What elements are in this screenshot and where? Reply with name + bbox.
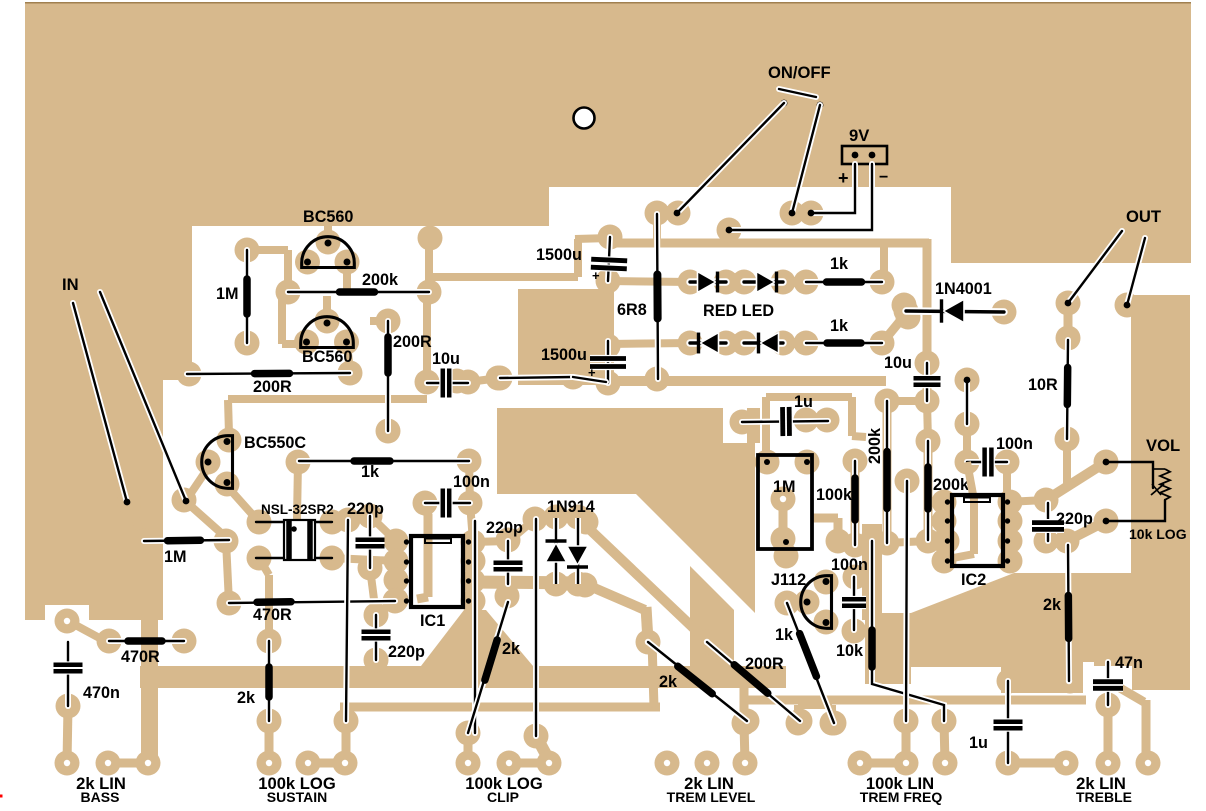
resistor 2k clip diagonal [468, 602, 508, 733]
capacitor 1500u lower [605, 341, 611, 383]
resistor 200R vertical [385, 321, 391, 431]
resistor 1M vertical [244, 250, 250, 343]
trace 47n pad diag right [1120, 688, 1144, 702]
svg-text:BC550C: BC550C [244, 434, 306, 452]
trace sustain pot links [265, 721, 274, 763]
svg-text:TREBLE: TREBLE [1076, 789, 1132, 805]
diode LED row2 a [690, 339, 726, 346]
svg-text:1u: 1u [969, 734, 988, 752]
VOL wire dots [1103, 459, 1110, 466]
trace 1500u1 to diode row1 [608, 281, 690, 282]
trace ic2 pin1 pour link [1007, 500, 1046, 502]
svg-text:1500u: 1500u [541, 346, 587, 364]
svg-text:2k: 2k [237, 689, 256, 707]
trace stub to 1k row1 pad [880, 245, 888, 278]
IC2 notch [964, 498, 990, 503]
trace bc550c pads joins [228, 400, 229, 434]
wire 1n914 to clip pot right [533, 519, 539, 736]
trace bass pot link [108, 759, 148, 768]
trace 200k tops link [887, 397, 927, 405]
svg-text:200R: 200R [253, 378, 292, 396]
transistor J112 [801, 576, 832, 629]
switch ON/OFF contact dots [781, 100, 788, 107]
trace vol bottom diag [1067, 521, 1106, 541]
IC2 box [952, 495, 1003, 566]
resistor 100k [852, 461, 858, 545]
wire OUT lead 2 [1127, 238, 1145, 305]
svg-text:IC1: IC1 [420, 612, 445, 630]
svg-text:1k: 1k [830, 255, 849, 273]
potentiometer VOL symbol [1106, 462, 1153, 488]
red registration tick [0, 795, 3, 798]
svg-text:2k: 2k [659, 673, 678, 691]
optocoupler NSL-32SR2 box [284, 520, 315, 560]
resistor 10R [1067, 340, 1068, 439]
copper pour top-left extension [25, 187, 549, 226]
resistor 200k rotated [884, 401, 890, 543]
svg-text:470R: 470R [253, 606, 292, 624]
IC1 pin dots [404, 539, 409, 544]
svg-text:1M: 1M [164, 548, 187, 566]
copper pour top-right block [951, 187, 1191, 263]
svg-text:10R: 10R [1028, 376, 1058, 394]
trace 1k row2 to 1n4001 cluster [882, 315, 905, 343]
trace stripe B to trem 2k [585, 584, 645, 610]
svg-text:2k: 2k [502, 640, 521, 658]
trace bc560-2 right pad to 200R [347, 344, 350, 371]
capacitor 220p ic1 right [505, 541, 511, 584]
svg-text:NSL-32SR2: NSL-32SR2 [261, 502, 334, 517]
wire 200k to trem freq pot [906, 481, 907, 721]
capacitor 1500u upper [608, 237, 610, 281]
trace 1m right pad to 470R pad [226, 541, 229, 603]
svg-text:SUSTAIN: SUSTAIN [267, 789, 327, 805]
svg-text:BC560: BC560 [303, 208, 353, 226]
copper pour center island upper [518, 289, 614, 385]
optocoupler NSL-32SR2 leads [256, 521, 284, 523]
copper pour left column upper [25, 226, 192, 380]
svg-text:VOL: VOL [1146, 436, 1180, 455]
svg-text:BASS: BASS [81, 789, 120, 805]
wire 9V plus to pad [812, 164, 855, 213]
copper pour top band edge line [25, 2, 1191, 4]
IC1 box [411, 536, 463, 607]
wire ON/OFF to pad 2 [792, 105, 820, 213]
copper pour column above 10k [862, 524, 882, 620]
trace stripe B drop [740, 688, 749, 723]
svg-text:200k: 200k [866, 427, 884, 464]
trace right rail x927 vertical [923, 239, 932, 401]
copper pour white pocket around 47n plates [1087, 666, 1132, 706]
resistor 10k [872, 541, 944, 721]
svg-text:220p: 220p [1056, 510, 1093, 528]
svg-text:1M: 1M [216, 285, 239, 303]
wire long jumper y377 to 1500u2 pad [573, 377, 606, 382]
svg-text:1N914: 1N914 [547, 498, 595, 516]
svg-text:10k: 10k [836, 642, 864, 660]
resistor 6R8 [657, 214, 658, 379]
trace trem level 2k stub [652, 641, 654, 707]
optocoupler NSL-32SR2 bars [286, 520, 292, 560]
trace 1m top pad L to 200k pad [247, 246, 288, 254]
capacitor 220p right [1045, 503, 1051, 541]
copper pour left column lower feet [25, 605, 45, 620]
trace bottom rail y381 [604, 376, 886, 386]
resistor 200R horizontal [187, 373, 350, 374]
resistor 2k right column [1068, 545, 1069, 681]
trace 10R top pads [1064, 303, 1073, 338]
trace treble links [1008, 759, 1066, 768]
svg-text:ON/OFF: ON/OFF [768, 63, 831, 82]
capacitor 100n j112 [851, 577, 857, 630]
IC1 notch [425, 539, 451, 544]
svg-text:10k LOG: 10k LOG [1129, 526, 1187, 542]
resistor 1k row2 [806, 340, 882, 346]
trace diode row1 middle link [726, 277, 744, 287]
trimpot 1M dots [764, 459, 770, 465]
transistor BC560 upper [302, 237, 355, 268]
svg-text:+: + [592, 268, 600, 283]
copper pour filler below notch [723, 443, 755, 494]
trace bc560-2 top pad up [323, 296, 331, 320]
copper pour lower-right mass [911, 573, 1131, 693]
pad holes [64, 496, 1151, 766]
trace 470n bottom to pot [67, 706, 68, 763]
trace 1n914 pads links [536, 515, 556, 524]
diode LED row1 a [690, 278, 726, 285]
diode 1N914 up [553, 518, 559, 584]
copper pour wedge right of stripes [636, 494, 755, 613]
copper pour notch white channel [723, 408, 747, 443]
trace trimpot bottom stub [782, 542, 791, 556]
trace 1k right pad to 100n [469, 461, 470, 503]
trace top row y541 right [928, 537, 947, 545]
svg-text:J112: J112 [771, 571, 806, 589]
mounting hole [574, 108, 595, 129]
trace 220p top pad to ic1 [370, 516, 396, 541]
capacitor 220p below ic1 [373, 615, 379, 660]
trace behind 200k second [924, 441, 933, 540]
trace long y277 to 200k column [429, 273, 578, 281]
svg-text:200R: 200R [393, 333, 432, 351]
trace thick y582 ic1 to diodes [473, 582, 586, 583]
battery clip 9V outline [842, 146, 887, 164]
trace behind 100k [851, 461, 860, 545]
resistor 470R upper [229, 601, 395, 603]
wire jumper 10u to 1500u2 [500, 377, 573, 378]
svg-text:IC2: IC2 [961, 571, 986, 589]
trace 200R-h left pad join [189, 368, 192, 380]
IC2 pin dots [945, 499, 950, 504]
capacitor 1u bottom [1005, 681, 1011, 763]
trace run A y707 [340, 703, 660, 712]
resistor 470R lower [109, 638, 184, 644]
trace ic1 pad to 220p3 [376, 600, 396, 615]
optocoupler NSL-32SR2 dot [291, 526, 297, 532]
resistor 1k bc550 [299, 458, 469, 464]
trace pi around 1u cap [762, 397, 770, 462]
svg-text:220p: 220p [388, 643, 425, 661]
trace 100n2 right pad down [1003, 462, 1011, 502]
trace diode row2 middle link [726, 338, 744, 348]
diode 1N914 down [575, 518, 581, 584]
diode LED row2 b [744, 339, 783, 346]
svg-text:1N4001: 1N4001 [935, 280, 992, 298]
trace pad 427 column [423, 292, 431, 383]
copper pour left column lower [25, 380, 163, 605]
trace ic2 left pads column [940, 502, 948, 561]
copper pour wall left of J112 pocket [690, 566, 734, 676]
wire from pad cluster x967 [964, 380, 970, 424]
trimpot 1M box [758, 455, 812, 549]
resistor 1k trem diagonal [787, 603, 834, 723]
diode 1N4001 [906, 311, 1004, 312]
svg-text:6R8: 6R8 [617, 301, 647, 319]
trace bc560-2 left column [278, 287, 286, 344]
svg-text:TREM LEVEL: TREM LEVEL [667, 789, 756, 805]
wire IN lead 1 [73, 303, 127, 502]
svg-text:1k: 1k [361, 463, 380, 481]
trace stripe A to trem 200R [584, 524, 705, 639]
trace 10u1 right pads link [468, 378, 500, 382]
svg-text:1M: 1M [773, 478, 796, 496]
trace 220p nsl bottom to 220p3 [370, 568, 376, 615]
trace ic1 right pads column stubs [466, 537, 478, 545]
trace trem level links [744, 723, 745, 763]
resistor 200k horizontal [288, 289, 429, 295]
svg-text:100n: 100n [453, 473, 490, 491]
trace diode row2 right link [783, 338, 806, 348]
capacitor 100n ic1 [425, 500, 470, 506]
svg-text:1u: 1u [794, 393, 813, 411]
svg-text:TREM FREQ: TREM FREQ [860, 789, 943, 805]
transistor BC560 lower [301, 317, 354, 348]
svg-text:IN: IN [62, 275, 79, 294]
copper pour clip triangle island [421, 610, 533, 666]
trace 470n top pad diag [68, 621, 105, 641]
wire nsl to sustain pot [346, 520, 348, 721]
copper pour white pocket left of 47n [1083, 662, 1094, 688]
trace x927 to 200k top [927, 401, 928, 441]
trace 200R-v top to left [370, 317, 388, 325]
resistor 2k trem diagonal [648, 642, 747, 721]
trace vol top diag [1046, 462, 1106, 500]
copper pour bottom band [140, 666, 786, 688]
resistor 1M horizontal [144, 540, 229, 541]
capacitor 220p nsl [367, 516, 373, 568]
copper pour top band [25, 2, 1191, 187]
copper pour bass vertical strip [141, 607, 158, 767]
copper pour center island main [497, 408, 730, 494]
svg-text:9V: 9V [849, 126, 869, 145]
trace x967 pads column [963, 424, 971, 462]
wire 220p to clip pot left [472, 521, 478, 733]
resistor 200R trem diagonal [707, 642, 800, 721]
svg-text:1k: 1k [775, 626, 794, 644]
capacitor 10u left [427, 380, 468, 386]
transistor BC550C [202, 436, 233, 489]
wire 9V minus to pad [729, 164, 872, 230]
trace pad 535 to 220p top [509, 519, 535, 541]
capacitor 47n [1105, 662, 1111, 705]
trace 1500u2 to diode row2 [608, 343, 690, 344]
trace trem freq links [860, 759, 906, 768]
trace nsl right pad to 220p top [332, 517, 368, 522]
trace 220p right pads diag [1046, 536, 1067, 546]
svg-text:−: − [879, 169, 888, 186]
capacitor 10u right [924, 363, 930, 401]
trace 1m trimpot middle [779, 499, 788, 539]
trace through IC2 interior [967, 462, 974, 500]
trace nsl right pad to ic1 pads [332, 558, 396, 561]
trace ic1 left pads column [392, 541, 400, 600]
diode LED row1 b [744, 278, 783, 285]
svg-text:+: + [838, 168, 849, 188]
trace j112 pads [787, 603, 806, 605]
trace 1u2 top pads link [1009, 677, 1070, 686]
svg-text:100n: 100n [996, 435, 1033, 453]
svg-text:47n: 47n [1115, 654, 1143, 672]
svg-text:2k: 2k [1043, 596, 1062, 614]
trace diode row1 right link [783, 277, 806, 287]
capacitor 1u left [742, 421, 828, 422]
trace clip pot links [464, 733, 473, 763]
svg-text:200k: 200k [362, 271, 399, 289]
switch ON/OFF lever [779, 89, 816, 97]
trace bc560-1 top pad to pour [324, 222, 332, 237]
capacitor 470n [65, 642, 71, 706]
trace bc560-1 right pad down [343, 262, 351, 290]
trace 1500u1 top L [575, 238, 610, 239]
wire IN lead 2 [100, 292, 186, 501]
resistor 2k sustain [266, 641, 272, 721]
svg-text:OUT: OUT [1126, 207, 1161, 226]
trace 6r8 pads column [653, 213, 661, 240]
trace 1k left pad down to nsl [297, 462, 298, 519]
trace 1m-left pads [129, 502, 144, 541]
wire OUT lead 1 [1068, 231, 1122, 303]
trace 10R bottom pad to vol [1063, 439, 1071, 488]
battery 9V terminal dots [852, 152, 859, 159]
svg-text:470R: 470R [121, 648, 160, 666]
pads [55, 201, 1161, 776]
svg-text:220p: 220p [486, 519, 523, 537]
trace ic1 pin5 to 220p top [473, 541, 508, 542]
svg-text:200R: 200R [745, 655, 784, 673]
svg-text:CLIP: CLIP [487, 789, 519, 805]
trace 200k right pad up [425, 240, 433, 292]
svg-text:470n: 470n [83, 684, 120, 702]
trace top thick rail y243 [604, 239, 929, 248]
trace 100n right pad to ic1 pin [470, 503, 473, 541]
svg-text:10u: 10u [432, 350, 460, 368]
copper pour right column block [1131, 295, 1190, 690]
svg-text:220p: 220p [347, 500, 384, 518]
trace through IC1 interior [427, 509, 428, 516]
svg-text:RED LED: RED LED [703, 302, 774, 320]
trace run B y700 [748, 696, 1086, 705]
svg-text:1k: 1k [830, 317, 849, 335]
trace behind 200k rot [883, 401, 892, 543]
svg-text:1500u: 1500u [536, 246, 582, 264]
capacitor 100n ic2 [967, 459, 1007, 465]
resistor 1k row1 [806, 279, 882, 285]
svg-text:100n: 100n [831, 556, 868, 574]
svg-text:100k: 100k [816, 486, 853, 504]
trace trimpot L [812, 514, 838, 523]
trace nsl bottom left pad down [259, 558, 269, 575]
trace 10u2 vertical [923, 363, 931, 401]
svg-text:BC560: BC560 [302, 348, 352, 366]
wire ON/OFF to pad 1 [677, 103, 784, 213]
svg-text:10u: 10u [884, 354, 912, 372]
resistor 200k second [925, 441, 931, 540]
svg-text:200k: 200k [933, 476, 970, 494]
trace 100k-200k bottom row [855, 541, 872, 545]
